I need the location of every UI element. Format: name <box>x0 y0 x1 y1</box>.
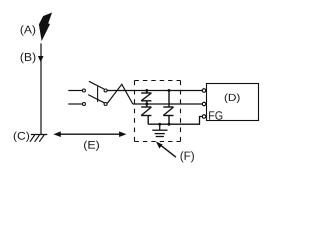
arrowhead (B) pointing down <box>38 56 44 62</box>
switch contact circle top-right <box>104 89 107 92</box>
varistor Z3 (top line to ground) <box>163 91 173 125</box>
wire: surge path vertical <box>40 43 42 134</box>
junction dot top line left <box>145 89 148 92</box>
wire: ground bar to FG <box>148 117 202 125</box>
wire: top line from switch to device <box>108 90 203 92</box>
device box (D) <box>207 84 259 121</box>
junction dot ground bar right <box>168 123 171 126</box>
pointer arrow (F) <box>161 145 176 157</box>
junction dot bottom line left <box>145 103 148 106</box>
wire: top line left stub <box>68 90 82 92</box>
chassis ground (C) bar <box>31 134 48 136</box>
label-C <box>14 132 29 142</box>
separation arrow (E) double headed <box>58 133 122 135</box>
label-F <box>181 151 194 162</box>
varistor Z1 (line-to-line) <box>141 91 151 105</box>
switch mechanical link <box>97 87 99 103</box>
ground hatch 2 <box>35 135 40 142</box>
junction dot top line right <box>168 89 171 92</box>
lightning bolt (A) <box>39 13 51 40</box>
wire: bottom line into box to device <box>133 103 202 105</box>
wire: twist hop of bottom line <box>107 84 133 104</box>
label-A <box>21 25 36 36</box>
earth ground symbol <box>152 124 167 136</box>
label-B <box>21 53 36 64</box>
label-D <box>225 94 240 104</box>
label-E <box>84 141 99 151</box>
terminal circle top <box>202 89 206 93</box>
terminal circle FG <box>202 115 206 119</box>
switch blade top <box>89 81 104 89</box>
label-FG <box>209 111 222 120</box>
switch contact circle bottom-left <box>82 103 85 106</box>
switch contact circle bottom-right <box>104 103 107 106</box>
junction dot ground bar left <box>158 123 161 126</box>
varistor Z2 (bottom line to ground) <box>141 104 151 124</box>
ground hatch 1 <box>30 135 35 142</box>
terminal circle middle <box>202 102 206 106</box>
ground hatch 3 <box>39 135 44 142</box>
wire: bottom line left stub <box>68 103 82 105</box>
switch blade bottom <box>88 95 104 103</box>
switch contact circle top-left <box>82 89 85 92</box>
dashed enclosure (F) surge absorber <box>135 81 181 142</box>
